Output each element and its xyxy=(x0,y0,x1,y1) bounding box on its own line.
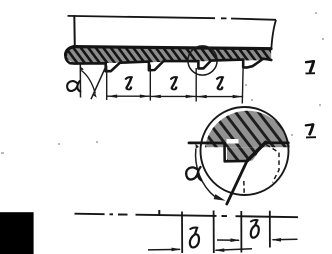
alpha arc (detail) xyxy=(196,149,215,197)
dimension line l segments with arrows xyxy=(107,95,243,97)
gray hatched half (misregistered) xyxy=(202,107,294,147)
black corner block xyxy=(0,212,34,254)
tooth back slant extended xyxy=(227,142,266,204)
scan noise dots xyxy=(1,12,324,154)
extension lines for pitch l xyxy=(106,66,108,100)
angle alpha slant line xyxy=(91,65,107,99)
right land xyxy=(266,142,289,145)
body top edge xyxy=(68,16,216,18)
l labels (hand-drawn script ell) xyxy=(126,77,132,89)
toothed strip: gray fill xyxy=(65,47,271,64)
body left edge xyxy=(73,15,76,47)
alpha arc with arrows xyxy=(81,71,95,94)
alpha label (detail) xyxy=(186,167,201,180)
tooth profile in detail: left land xyxy=(189,141,225,144)
tooth ticks xyxy=(181,212,183,254)
detail callout circle I on third tooth xyxy=(188,46,217,75)
angle alpha construction: vertical ref line xyxy=(79,64,81,98)
tooth front face + floor xyxy=(225,143,248,161)
strip thick top border xyxy=(66,47,271,55)
body top edge dash-dot continuation xyxy=(221,18,276,20)
centre line (dash-dot) xyxy=(75,214,299,218)
phantom dashed next tooth xyxy=(266,145,279,183)
strip hatch overlay xyxy=(65,47,271,64)
centre mark (dashed) in detail circle xyxy=(243,181,245,194)
detail circle outline xyxy=(201,107,289,195)
b label 1 (hand-drawn) xyxy=(190,227,199,247)
b dimension arrows xyxy=(148,248,180,251)
label 7 (view I) top xyxy=(306,61,316,73)
body right edge xyxy=(271,20,276,49)
label 7 (view I) detail xyxy=(306,124,316,137)
alpha label (top view) xyxy=(67,81,80,92)
land line and teeth profile xyxy=(65,54,271,72)
small tick xyxy=(158,210,160,215)
b label 2 (hand-drawn) xyxy=(251,220,259,238)
